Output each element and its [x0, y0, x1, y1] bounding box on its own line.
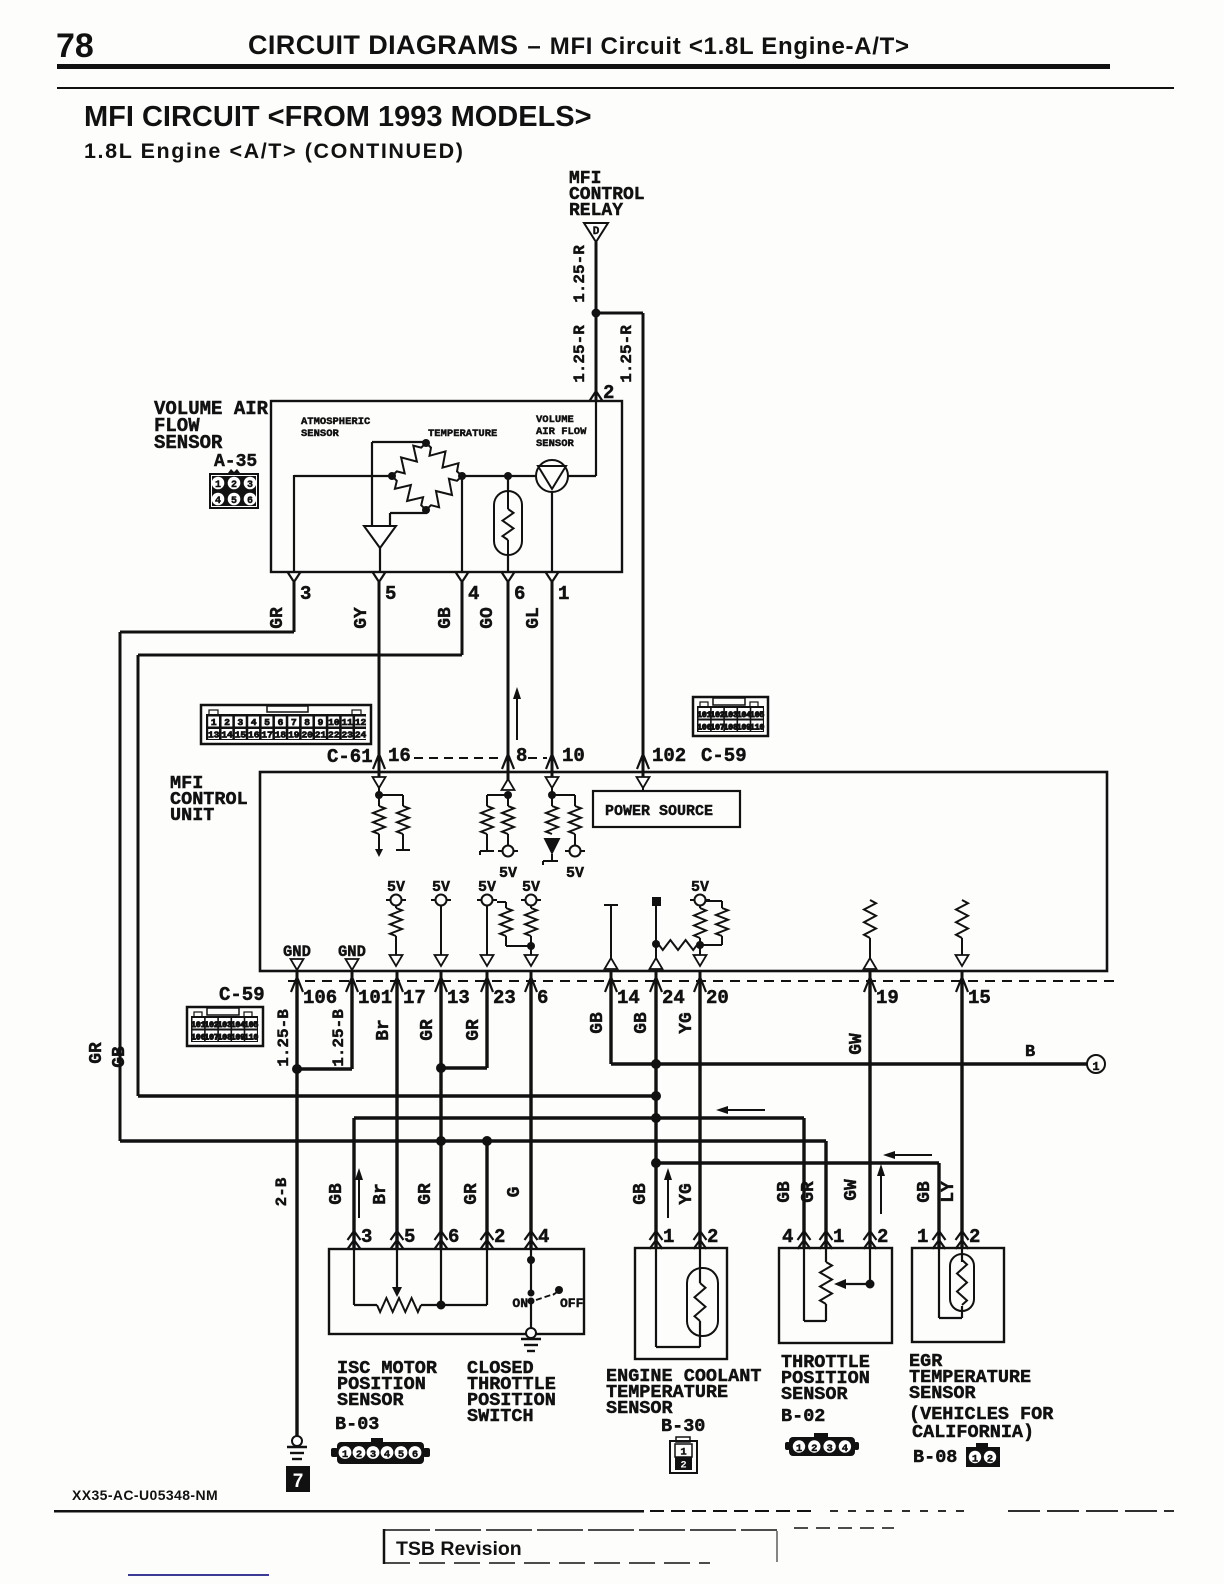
C-61 pin 16 tick: [373, 754, 385, 769]
svg-text:16: 16: [388, 745, 411, 767]
svg-text:4: 4: [468, 583, 479, 605]
svg-text:4: 4: [384, 1449, 390, 1461]
svg-text:CALIFORNIA): CALIFORNIA): [912, 1422, 1034, 1443]
junction node GR/ISC2: [482, 1136, 492, 1146]
svg-text:GB: GB: [631, 1183, 651, 1205]
junction node 24/EGR branch: [651, 1158, 661, 1168]
signal direction arrow (GB mid bus): [726, 1109, 765, 1111]
wire pin 17 down to ISC pin 5 (Br): [395, 981, 398, 1248]
svg-text:22: 22: [328, 730, 340, 741]
svg-text:23: 23: [341, 730, 353, 741]
ISC wiper arrow (pin 5): [396, 1249, 398, 1288]
svg-text:5V: 5V: [522, 879, 540, 896]
svg-text:3: 3: [300, 583, 311, 605]
junction node 24/B: [651, 1059, 661, 1069]
switch to ground wire: [530, 1301, 532, 1329]
sensor pin 5 arrow at x=397: [391, 1231, 404, 1240]
MFI pin 23 tick: [486, 971, 489, 981]
svg-text:GR: GR: [418, 1019, 438, 1041]
VAF pin 5 arrow: [373, 572, 386, 582]
sensor pin 6 arrow at x=441: [435, 1231, 448, 1240]
svg-text:2: 2: [231, 480, 237, 491]
svg-text:Br: Br: [371, 1183, 391, 1205]
ISC pin 6 wire internal: [440, 1249, 442, 1305]
bridge resistor top-left: [392, 443, 426, 476]
sensor pin 1 arrow at x=939: [933, 1231, 946, 1240]
svg-text:13: 13: [447, 987, 470, 1009]
parallel resistor (pin 20): [705, 900, 722, 902]
svg-text:SWITCH: SWITCH: [467, 1406, 534, 1427]
svg-text:1: 1: [1092, 1060, 1099, 1074]
svg-text:2: 2: [811, 1443, 817, 1455]
amplifier triangle (atmospheric sensor): [364, 526, 396, 548]
svg-text:6: 6: [448, 1226, 459, 1248]
bridge resistor bottom-right: [426, 476, 462, 510]
header thin rule: [57, 87, 1174, 89]
signal direction arrow on GO wire: [516, 697, 518, 740]
svg-text:2: 2: [987, 1454, 993, 1466]
wire GR stub to ISC pin 2: [485, 1141, 488, 1248]
svg-text:10: 10: [328, 717, 340, 728]
engine coolant temperature sensor box: [635, 1248, 727, 1359]
bus GB mid (ISC pin3 to TPS pin4): [354, 1116, 804, 1119]
off-page connector D (MFI control relay): [584, 223, 608, 242]
TSB Revision box: [383, 1529, 386, 1564]
svg-text:12: 12: [355, 717, 367, 728]
signal direction arrow (EGR bus): [893, 1154, 932, 1156]
svg-text:8: 8: [516, 745, 527, 767]
MFI pin 19 tick: [869, 971, 872, 981]
junction node pin10: [548, 791, 556, 799]
svg-text:POWER SOURCE: POWER SOURCE: [605, 803, 713, 820]
svg-text:Br: Br: [374, 1019, 394, 1041]
svg-text:18: 18: [275, 730, 287, 741]
svg-text:17: 17: [403, 987, 426, 1009]
wire GR pin3 to left bus: [293, 582, 296, 632]
MFI pin 20 tick: [699, 971, 702, 981]
svg-text:1.25-B: 1.25-B: [275, 1009, 293, 1067]
wire pin 14 down (GB) to output B: [609, 981, 612, 1064]
svg-text:6: 6: [278, 717, 284, 728]
wire pin 13 down to ISC pin 6 (GR): [439, 981, 442, 1248]
svg-text:2: 2: [680, 1460, 686, 1472]
MFI input arrow pin 102 (power): [642, 758, 645, 777]
svg-text:UNIT: UNIT: [170, 805, 214, 826]
svg-text:1: 1: [342, 1449, 348, 1461]
svg-text:14: 14: [617, 987, 640, 1009]
junction node relay wire: [592, 309, 601, 318]
EGR pin 1 wire internal: [938, 1248, 940, 1318]
throttle position sensor box: [779, 1248, 892, 1343]
junction node thermistor tap: [504, 472, 512, 480]
svg-text:5V: 5V: [478, 879, 496, 896]
svg-text:1.25-R: 1.25-R: [571, 245, 589, 303]
wire pin 106 down (1.25-B): [295, 981, 298, 1437]
bridge node top: [422, 439, 430, 447]
thermistor (oval resistor): [494, 491, 522, 555]
svg-text:110: 110: [750, 724, 765, 733]
connector B-03 (6-pin): [371, 1438, 383, 1443]
svg-text:OFF: OFF: [560, 1296, 584, 1311]
svg-text:4: 4: [842, 1443, 848, 1455]
svg-text:1: 1: [558, 583, 569, 605]
sensor pin 4 arrow at x=804: [798, 1231, 811, 1240]
ISC motor position sensor / closed throttle switch box: [329, 1249, 584, 1334]
MFI control unit box: [260, 772, 1107, 971]
svg-text:19: 19: [288, 730, 300, 741]
horizontal resistor pin24-pin20: [659, 940, 697, 950]
svg-text:11: 11: [341, 717, 353, 728]
svg-text:5: 5: [264, 717, 270, 728]
svg-text:GY: GY: [352, 607, 372, 629]
svg-text:3: 3: [238, 717, 244, 728]
wire pin 2 down to VAF symbol: [595, 401, 597, 476]
MFI pin 106 tick: [296, 971, 299, 981]
svg-text:GB: GB: [436, 607, 456, 629]
switch lever to OFF (dashed): [536, 1294, 554, 1300]
junction node GR/ISC6: [436, 1136, 446, 1146]
svg-text:2: 2: [224, 717, 230, 728]
TPS pin 4 wire internal: [803, 1248, 805, 1321]
connector interface dashed line (MFI bottom): [288, 980, 1116, 982]
svg-text:17: 17: [261, 730, 273, 741]
svg-text:B-30: B-30: [661, 1416, 705, 1437]
sensor pin 2 arrow at x=487: [481, 1231, 494, 1240]
resistor R-d (pin8) to 5V: [507, 795, 509, 806]
svg-text:6: 6: [412, 1449, 418, 1461]
connector C-61 (24-pin): [201, 705, 371, 744]
svg-text:B: B: [1025, 1043, 1035, 1062]
svg-text:1.8L Engine <A/T> (CONTINUED): 1.8L Engine <A/T> (CONTINUED): [84, 139, 465, 163]
wire VAF symbol to pin 1: [551, 492, 553, 572]
svg-text:B-02: B-02: [781, 1406, 825, 1427]
svg-text:7: 7: [293, 1471, 304, 1492]
svg-text:GL: GL: [524, 607, 544, 629]
svg-text:9: 9: [318, 717, 324, 728]
svg-text:GR: GR: [268, 607, 288, 629]
svg-text:3: 3: [247, 480, 253, 491]
coolant thermistor (oval): [699, 1248, 701, 1283]
svg-text:4: 4: [782, 1226, 793, 1248]
wire pin 24 down to coolant pin 1 (GB): [654, 981, 657, 1248]
ground terminal circle (switch): [526, 1328, 536, 1338]
svg-text:1.25-B: 1.25-B: [330, 1009, 348, 1067]
svg-text:2: 2: [494, 1226, 505, 1248]
wire 1.25-R node to VAF pin 2: [595, 313, 598, 401]
MFI pin 13 tick: [440, 971, 443, 981]
ISC pin 3 wire internal: [353, 1249, 355, 1305]
junction node pin24 internal: [652, 940, 660, 948]
EGR temperature sensor box: [912, 1248, 1004, 1342]
svg-text:GB: GB: [327, 1183, 347, 1205]
MFI pin 101 tick: [351, 971, 354, 981]
connector B-08 (2-pin): [976, 1443, 988, 1448]
svg-text:YG: YG: [677, 1012, 697, 1034]
svg-text:A-35: A-35: [214, 452, 257, 472]
MFI pin 14 tick: [610, 971, 613, 981]
junction node pin20 internal: [696, 941, 704, 949]
svg-text:15: 15: [968, 987, 991, 1009]
svg-text:5V: 5V: [432, 879, 450, 896]
sensor pin 2 arrow at x=700: [694, 1231, 707, 1240]
wire pin 23 down joins pin 13: [485, 981, 488, 1068]
TPS potentiometer resistor: [825, 1248, 827, 1262]
signal arrow up (ISC pin 3): [358, 1178, 360, 1218]
svg-text:6: 6: [537, 987, 548, 1009]
svg-text:D: D: [593, 226, 600, 238]
connector C-59 (10-pin, left): [187, 1007, 263, 1046]
svg-text:C-61: C-61: [327, 746, 373, 768]
EGR thermistor (oval): [961, 1248, 963, 1262]
bridge resistor bottom-left: [392, 476, 426, 510]
svg-text:2: 2: [969, 1226, 980, 1248]
svg-text:2-B: 2-B: [273, 1177, 291, 1206]
wire bridge left node to pin 3: [294, 475, 392, 477]
svg-text:106: 106: [303, 987, 337, 1009]
5V supply circle (pin10): [565, 850, 570, 852]
5V supply circle (pin8): [498, 850, 503, 852]
svg-text:SENSOR: SENSOR: [154, 432, 223, 454]
wire 1.25-R from relay down to node: [595, 242, 598, 313]
junction node pin6 internal: [527, 942, 535, 950]
svg-text:5V: 5V: [499, 865, 517, 882]
wire bridge right node down to pin 4: [461, 476, 463, 572]
resistor R-e (pin10) to 5V: [552, 794, 575, 796]
junction node 106/101: [292, 1064, 302, 1074]
resistor pin 19: [864, 900, 876, 938]
junction node 13/23: [436, 1063, 446, 1073]
svg-text:4: 4: [538, 1226, 549, 1248]
svg-text:1: 1: [663, 1226, 674, 1248]
svg-text:MFI CIRCUIT <FROM 1993 MODELS>: MFI CIRCUIT <FROM 1993 MODELS>: [84, 101, 592, 133]
junction node pin8: [504, 791, 512, 799]
C-61 pin 10 tick: [546, 754, 558, 769]
svg-text:SENSOR: SENSOR: [781, 1384, 849, 1405]
MFI pin 15 tick: [961, 971, 964, 981]
svg-text:2: 2: [877, 1226, 888, 1248]
svg-text:5: 5: [385, 583, 396, 605]
MFI pin 24 tick: [655, 971, 658, 981]
svg-text:2: 2: [707, 1226, 718, 1248]
POWER SOURCE block: [642, 788, 644, 791]
wire to pullup node (pin16): [378, 788, 380, 795]
svg-text:102: 102: [652, 745, 686, 767]
svg-text:1: 1: [680, 1447, 686, 1459]
VAF pin 6 arrow: [502, 572, 515, 582]
bus line B to off-page connector 1: [611, 1062, 1087, 1065]
wire pin 6 down to switch pin 4 (G): [529, 981, 532, 1248]
junction node ISC pin6: [437, 1301, 446, 1310]
svg-text:14: 14: [221, 730, 233, 741]
bus GB to EGR pin 1: [656, 1161, 939, 1164]
svg-text:G: G: [505, 1187, 525, 1198]
off-page connector circled 1: [1087, 1055, 1105, 1073]
svg-text:XX35-AC-U05348-NM: XX35-AC-U05348-NM: [72, 1487, 218, 1503]
MFI pin 17 tick: [396, 971, 399, 981]
MFI input arrow pin 10: [551, 758, 554, 777]
svg-text:TSB Revision: TSB Revision: [396, 1538, 522, 1560]
wire GB pin4 to left bus: [461, 582, 464, 655]
svg-text:GB: GB: [110, 1046, 130, 1068]
wire amplifier to pin 5: [379, 548, 381, 572]
connector interface dashed line (C-61 row): [414, 757, 500, 759]
svg-text:C-59: C-59: [219, 984, 265, 1006]
wire GY pin5 to C-61 pin 16: [378, 582, 381, 764]
svg-text:C-59: C-59: [701, 745, 747, 767]
svg-text:2: 2: [356, 1449, 362, 1461]
header thick rule: [57, 64, 1110, 69]
svg-text:GR: GR: [416, 1183, 436, 1205]
connector B-02 (4-pin): [814, 1433, 828, 1438]
resistor pin 15: [956, 900, 968, 938]
svg-text:GB: GB: [588, 1012, 608, 1034]
svg-text:1: 1: [796, 1443, 802, 1455]
svg-text:3: 3: [361, 1226, 372, 1248]
wire 1.25-R branch right: [596, 312, 643, 315]
svg-text:GB: GB: [632, 1012, 652, 1034]
junction node 24/GB-mid: [651, 1113, 661, 1123]
svg-text:ON: ON: [512, 1296, 528, 1311]
junction node 24/GB-bus: [651, 1091, 661, 1101]
MFI input arrow pin 16: [378, 758, 381, 777]
wire pin 101 down joins pin 106: [350, 981, 353, 1069]
ground terminal circle (2-B): [292, 1436, 302, 1446]
svg-text:GR: GR: [464, 1019, 484, 1041]
svg-text:AIR FLOW: AIR FLOW: [536, 426, 587, 438]
junction node switch: [527, 1256, 535, 1264]
sensor pin 2 arrow at x=962: [956, 1231, 969, 1240]
wire GO pin6 to C-61 pin 8: [507, 582, 510, 764]
bridge node right: [458, 472, 466, 480]
svg-text:24: 24: [355, 730, 367, 741]
svg-text:YG: YG: [677, 1183, 697, 1205]
svg-text:SENSOR: SENSOR: [909, 1383, 977, 1404]
svg-text:GR: GR: [462, 1183, 482, 1205]
TPS wiper from pin 2: [869, 1248, 871, 1284]
svg-text:7: 7: [291, 717, 297, 728]
coolant pin 1 wire internal: [655, 1248, 657, 1347]
svg-text:4: 4: [215, 496, 221, 507]
svg-text:4: 4: [251, 717, 257, 728]
svg-text:TEMPERATURE: TEMPERATURE: [428, 428, 497, 440]
svg-text:ATMOSPHERIC: ATMOSPHERIC: [301, 416, 371, 428]
sensor pin 2 arrow at x=870: [864, 1231, 877, 1240]
ground symbol (2-B): [287, 1446, 307, 1448]
svg-text:GB: GB: [775, 1181, 795, 1203]
ground symbol (switch): [521, 1338, 541, 1340]
svg-text:B-03: B-03: [335, 1414, 379, 1435]
svg-text:1: 1: [917, 1226, 928, 1248]
svg-text:5: 5: [398, 1449, 404, 1461]
sensor pin 1 arrow at x=656: [650, 1231, 663, 1240]
VAF pin 3 arrow: [288, 572, 301, 582]
wire bridge top node to amplifier input 1: [372, 441, 426, 443]
svg-text:GO: GO: [478, 607, 498, 629]
svg-text:SENSOR: SENSOR: [337, 1390, 405, 1411]
sensor pin 4 arrow at x=531: [525, 1231, 538, 1240]
switch pin 4 wire internal: [530, 1249, 532, 1292]
wire pin 20 down to coolant pin 2 (YG): [698, 981, 701, 1248]
closed throttle switch contacts: [528, 1290, 535, 1297]
svg-text:10: 10: [562, 745, 585, 767]
ISC internal wire to pin 2: [441, 1304, 487, 1306]
svg-text:1: 1: [211, 717, 217, 728]
svg-text:5: 5: [231, 496, 237, 507]
svg-text:SENSOR: SENSOR: [536, 438, 575, 450]
VAF pin 2 arrow: [590, 391, 603, 401]
svg-text:3: 3: [370, 1449, 376, 1461]
C-59 pin 102 tick: [637, 754, 649, 769]
C-61 pin 8 tick: [502, 754, 514, 769]
svg-text:RELAY: RELAY: [569, 201, 623, 221]
signal arrow up (TPS pin 2): [880, 1174, 882, 1214]
bridge node left: [388, 472, 396, 480]
blue scan mark: [128, 1574, 269, 1576]
svg-text:8: 8: [304, 717, 310, 728]
svg-text:LY: LY: [939, 1181, 959, 1203]
svg-text:20: 20: [301, 730, 313, 741]
wire bridge bottom node to amplifier input 2: [425, 510, 427, 513]
wire 1.25-R branch down to C-59 pin 102: [642, 313, 645, 764]
resistor R-c (pin8 left): [487, 794, 508, 796]
svg-text:5: 5: [404, 1226, 415, 1248]
wire GL pin1 to C-61 pin 10: [551, 582, 554, 764]
svg-text:B-08: B-08: [913, 1447, 957, 1468]
svg-text:GR: GR: [87, 1042, 107, 1064]
bridge resistor top-right: [426, 443, 462, 476]
svg-text:CIRCUIT DIAGRAMS–MFI Circuit <: CIRCUIT DIAGRAMS–MFI Circuit <1.8L Engin…: [248, 30, 910, 60]
internal line pin 14: [604, 904, 618, 906]
connector C-59 (10-pin, top): [693, 697, 768, 736]
bridge node bottom: [422, 506, 430, 514]
svg-text:3: 3: [826, 1443, 832, 1455]
ground arrow pin 106: [291, 959, 304, 970]
svg-text:6: 6: [247, 496, 253, 507]
svg-text:6: 6: [514, 583, 525, 605]
svg-text:5V: 5V: [691, 879, 709, 896]
volume air flow sensor symbol (circle): [536, 460, 568, 492]
svg-text:13: 13: [208, 730, 220, 741]
svg-text:GW: GW: [842, 1179, 862, 1201]
ground arrow pin 101: [346, 959, 359, 970]
wire tap down to thermistor: [507, 476, 509, 491]
svg-text:19: 19: [876, 987, 899, 1009]
resistor R-a (pin16 left): [378, 795, 380, 806]
internal network pin 24: [652, 897, 661, 906]
connector B-30 (2-pin): [676, 1437, 690, 1442]
bus GR (VAF to TPS pin1): [120, 1139, 826, 1142]
svg-text:5V: 5V: [566, 865, 584, 882]
MFI pin 6 tick: [530, 971, 533, 981]
MFI output arrow pin 8: [507, 758, 510, 790]
svg-text:21: 21: [315, 730, 327, 741]
junction node pin16 pullups: [375, 791, 383, 799]
svg-text:1: 1: [833, 1226, 844, 1248]
svg-text:101: 101: [358, 987, 392, 1009]
sensor pin 3 arrow at x=354: [348, 1231, 361, 1240]
svg-text:5V: 5V: [387, 879, 405, 896]
connector A-35 (6-pin): [228, 469, 240, 473]
signal arrow up (coolant pin 1): [667, 1178, 669, 1218]
svg-text:VOLUME: VOLUME: [536, 414, 574, 426]
ground reference 7 (black square): [286, 1466, 310, 1492]
svg-text:SENSOR: SENSOR: [301, 428, 340, 440]
svg-text:105: 105: [750, 711, 765, 720]
svg-text:GW: GW: [847, 1033, 867, 1055]
svg-text:1: 1: [215, 480, 221, 491]
volume air flow sensor box A-35: [271, 401, 622, 572]
wire pin 15 down to EGR pin 2 (LY): [960, 981, 963, 1248]
